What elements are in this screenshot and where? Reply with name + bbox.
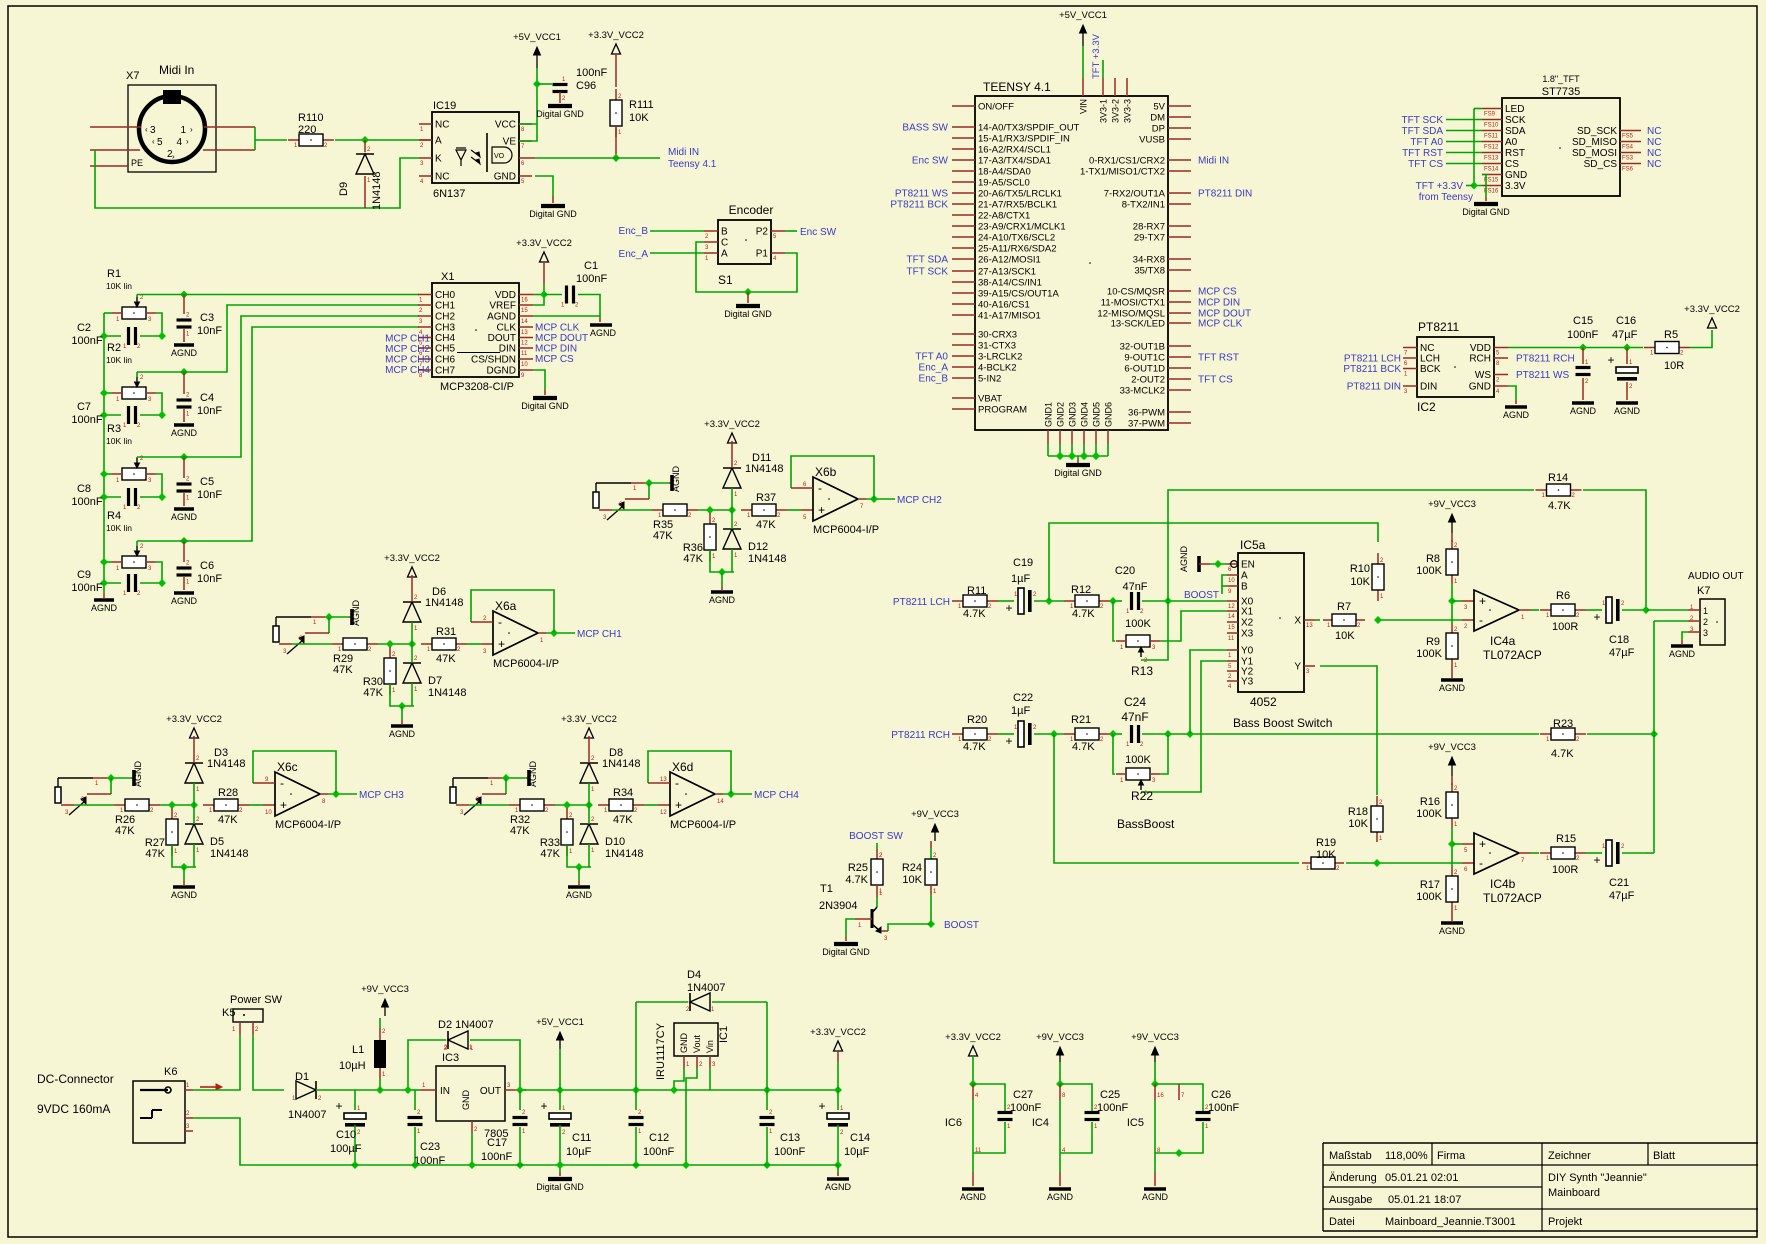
svg-text:47K: 47K [363, 687, 383, 699]
svg-text:NC: NC [1647, 159, 1661, 170]
svg-text:SD_MISO: SD_MISO [1572, 137, 1617, 148]
svg-text:47K: 47K [145, 848, 165, 860]
svg-text:Digital GND: Digital GND [1054, 468, 1102, 478]
svg-text:BOOST: BOOST [1184, 590, 1219, 601]
svg-text:100nF: 100nF [71, 582, 102, 594]
svg-text:BASS SW: BASS SW [902, 123, 948, 134]
svg-text:31-CTX3: 31-CTX3 [978, 341, 1016, 352]
svg-text:PT8211 BCK: PT8211 BCK [890, 200, 948, 211]
svg-text:Mainboard: Mainboard [1548, 1187, 1600, 1199]
svg-text:30-CRX3: 30-CRX3 [978, 330, 1017, 341]
svg-text:16: 16 [1157, 1093, 1164, 1099]
svg-text:14-A0/TX3/SPDIF_OUT: 14-A0/TX3/SPDIF_OUT [978, 123, 1080, 134]
svg-text:PE: PE [131, 158, 143, 168]
svg-text:R21: R21 [1071, 714, 1091, 726]
svg-text:1µF: 1µF [1011, 705, 1030, 717]
svg-text:RCH: RCH [1469, 354, 1491, 365]
svg-text:TFT +3.3V: TFT +3.3V [1091, 33, 1102, 79]
svg-text:R34: R34 [613, 787, 633, 799]
svg-text:AGND: AGND [487, 312, 516, 323]
svg-text:A: A [721, 249, 728, 260]
svg-text:4.7K: 4.7K [1072, 741, 1095, 753]
svg-text:Y: Y [1294, 662, 1301, 673]
svg-text:Digital GND: Digital GND [536, 1182, 584, 1192]
svg-text:VREF: VREF [489, 301, 516, 312]
svg-text:100nF: 100nF [643, 1146, 674, 1158]
svg-text:1N4007: 1N4007 [288, 1109, 327, 1121]
svg-text:AGND: AGND [709, 595, 736, 605]
svg-text:10K: 10K [902, 874, 922, 886]
svg-text:Enc SW: Enc SW [800, 227, 837, 238]
svg-text:+9V_VCC3: +9V_VCC3 [361, 984, 409, 995]
svg-text:4.7K: 4.7K [845, 874, 868, 886]
svg-text:100nF: 100nF [481, 1151, 512, 1163]
svg-text:C25: C25 [1100, 1089, 1120, 1101]
svg-text:Ausgabe: Ausgabe [1329, 1194, 1372, 1206]
svg-text:D1: D1 [295, 1071, 309, 1083]
svg-text:Digital GND: Digital GND [536, 109, 584, 119]
svg-text:C19: C19 [1013, 557, 1033, 569]
svg-text:10nF: 10nF [197, 325, 222, 337]
svg-text:47µF: 47µF [1612, 329, 1638, 341]
svg-text:100nF: 100nF [1010, 1102, 1041, 1114]
svg-text:15-A1/RX3/SPDIF_IN: 15-A1/RX3/SPDIF_IN [978, 134, 1070, 145]
svg-text:Enc_A: Enc_A [919, 363, 949, 374]
svg-text:+3.3V_VCC2: +3.3V_VCC2 [166, 714, 222, 725]
svg-text:13: 13 [521, 330, 528, 336]
svg-text:9-OUT1C: 9-OUT1C [1124, 353, 1165, 364]
svg-text:AGND: AGND [566, 890, 593, 900]
svg-text:14: 14 [521, 319, 528, 325]
svg-text:C2: C2 [77, 322, 91, 334]
svg-text:AGND: AGND [1439, 926, 1466, 936]
svg-text:ON/OFF: ON/OFF [978, 102, 1014, 113]
svg-text:FS11: FS11 [1484, 134, 1499, 140]
svg-text:Änderung: Änderung [1329, 1172, 1377, 1184]
svg-text:Bass Boost Switch: Bass Boost Switch [1233, 716, 1332, 730]
svg-text:R14: R14 [1548, 472, 1568, 484]
svg-text:6N137: 6N137 [433, 188, 465, 200]
svg-text:AGND: AGND [1439, 683, 1466, 693]
svg-text:Enc_A: Enc_A [619, 249, 649, 260]
svg-text:33-MCLK2: 33-MCLK2 [1120, 386, 1165, 397]
svg-text:Datei: Datei [1329, 1216, 1355, 1228]
svg-text:10µF: 10µF [566, 1146, 592, 1158]
svg-text:WS: WS [1475, 370, 1491, 381]
svg-text:100R: 100R [1552, 864, 1578, 876]
svg-text:20-A6/TX5/LRCLK1: 20-A6/TX5/LRCLK1 [978, 189, 1062, 200]
svg-text:+: + [1593, 853, 1600, 867]
svg-text:X2: X2 [1241, 618, 1254, 629]
svg-text:+: + [1479, 837, 1486, 851]
svg-text:GND: GND [461, 1090, 471, 1111]
svg-text:CH6: CH6 [435, 355, 455, 366]
svg-text:6-OUT1D: 6-OUT1D [1124, 364, 1165, 375]
svg-text:TFT SCK: TFT SCK [907, 267, 949, 278]
svg-text:13: 13 [660, 777, 667, 783]
svg-text:100K: 100K [1416, 565, 1442, 577]
svg-text:5V: 5V [1153, 102, 1165, 113]
svg-text:5: 5 [157, 137, 163, 148]
svg-text:1N4148: 1N4148 [425, 597, 464, 609]
svg-text:4: 4 [176, 137, 182, 148]
svg-text:100nF: 100nF [1567, 329, 1598, 341]
svg-text:25-A11/RX6/SDA2: 25-A11/RX6/SDA2 [978, 244, 1057, 255]
svg-text:C6: C6 [200, 560, 214, 572]
svg-text:VIN: VIN [1079, 99, 1089, 114]
svg-text:R20: R20 [967, 714, 987, 726]
svg-text:AGND: AGND [171, 890, 198, 900]
svg-text:C4: C4 [200, 392, 214, 404]
svg-text:VDD: VDD [495, 290, 516, 301]
svg-text:AGND: AGND [528, 760, 538, 787]
svg-text:Y0: Y0 [1241, 646, 1254, 657]
svg-text:Y3: Y3 [1241, 677, 1254, 688]
svg-text:1N4148: 1N4148 [210, 848, 249, 860]
svg-text:+3.3V_VCC2: +3.3V_VCC2 [1684, 304, 1740, 315]
svg-text:100nF: 100nF [774, 1146, 805, 1158]
svg-text:15: 15 [521, 308, 528, 314]
svg-text:Digital GND: Digital GND [724, 309, 772, 319]
svg-text:MCP CS: MCP CS [535, 354, 574, 365]
svg-text:A0: A0 [1505, 137, 1518, 148]
svg-text:C18: C18 [1609, 634, 1629, 646]
svg-text:DOUT: DOUT [488, 333, 516, 344]
svg-text:MCP CS: MCP CS [1198, 287, 1237, 298]
svg-text:PT8211 DIN: PT8211 DIN [1198, 189, 1252, 200]
svg-text:R13: R13 [1131, 664, 1153, 678]
svg-text:R22: R22 [1131, 789, 1153, 803]
svg-text:Enc_B: Enc_B [619, 226, 649, 237]
svg-text:+: + [675, 798, 682, 812]
svg-text:12: 12 [660, 810, 667, 816]
svg-text:28-RX7: 28-RX7 [1133, 222, 1165, 233]
svg-text:TFT RST: TFT RST [1402, 148, 1443, 159]
svg-text:B: B [1241, 582, 1248, 593]
svg-text:32-OUT1B: 32-OUT1B [1120, 342, 1165, 353]
svg-text:PT8211 LCH: PT8211 LCH [1344, 354, 1401, 365]
svg-text:100nF: 100nF [576, 273, 607, 285]
svg-text:SCK: SCK [1505, 115, 1526, 126]
svg-text:GND: GND [1505, 170, 1527, 181]
svg-text:C27: C27 [1013, 1089, 1033, 1101]
svg-text:C1: C1 [584, 260, 598, 272]
svg-text:C12: C12 [649, 1132, 669, 1144]
svg-text:MCP3208-CI/P: MCP3208-CI/P [440, 381, 514, 393]
svg-text:GND3: GND3 [1068, 402, 1078, 427]
svg-text:X6a: X6a [495, 599, 517, 613]
svg-text:CH5: CH5 [435, 344, 455, 355]
svg-text:MCP CH3: MCP CH3 [359, 790, 404, 801]
svg-text:16: 16 [521, 298, 528, 304]
svg-text:CS/SHDN: CS/SHDN [471, 355, 516, 366]
svg-text:BCK: BCK [1420, 364, 1441, 375]
svg-text:DP: DP [1152, 124, 1165, 135]
svg-text:7-RX2/OUT1A: 7-RX2/OUT1A [1104, 189, 1166, 200]
svg-text:+3.3V_VCC2: +3.3V_VCC2 [810, 1027, 866, 1038]
svg-text:AGND: AGND [1669, 649, 1696, 659]
svg-text:100nF: 100nF [71, 414, 102, 426]
svg-text:MCP CH2: MCP CH2 [385, 344, 430, 355]
svg-text:100K: 100K [1416, 808, 1442, 820]
svg-text:FS13: FS13 [1484, 156, 1499, 162]
svg-text:PT8211 RCH: PT8211 RCH [1516, 354, 1575, 365]
svg-text:10nF: 10nF [197, 573, 222, 585]
svg-text:FS14: FS14 [1484, 167, 1499, 173]
svg-text:1.8"_TFT: 1.8"_TFT [1542, 74, 1580, 84]
svg-text:100K: 100K [1125, 618, 1151, 630]
svg-text:DC-Connector: DC-Connector [37, 1072, 114, 1086]
svg-text:B: B [721, 227, 728, 238]
svg-text:10R: 10R [1664, 360, 1684, 372]
svg-text:R23: R23 [1553, 718, 1573, 730]
svg-text:5-IN2: 5-IN2 [978, 374, 1001, 385]
svg-text:47K: 47K [653, 530, 673, 542]
svg-text:D4: D4 [687, 969, 701, 981]
svg-text:FS6: FS6 [1622, 167, 1634, 173]
svg-text:Encoder: Encoder [729, 203, 774, 217]
svg-text:100nF: 100nF [1097, 1102, 1128, 1114]
svg-text:›: › [190, 125, 193, 134]
svg-text:R28: R28 [218, 787, 238, 799]
svg-text:DIN: DIN [1420, 382, 1437, 393]
svg-text:10µH: 10µH [339, 1060, 366, 1072]
svg-text:D7: D7 [428, 675, 442, 687]
svg-text:+9V_VCC3: +9V_VCC3 [1036, 1032, 1084, 1043]
svg-text:AGND: AGND [1614, 406, 1641, 416]
svg-text:11: 11 [521, 351, 528, 357]
svg-text:1N4148: 1N4148 [207, 758, 246, 770]
svg-text:TL072ACP: TL072ACP [1483, 891, 1542, 905]
svg-text:IC4a: IC4a [1490, 634, 1516, 648]
svg-text:X6c: X6c [277, 760, 298, 774]
svg-text:14: 14 [1228, 614, 1235, 620]
svg-text:24-A10/TX6/SCL2: 24-A10/TX6/SCL2 [978, 233, 1055, 244]
svg-text:10: 10 [265, 810, 272, 816]
svg-text:+5V_VCC1: +5V_VCC1 [513, 32, 561, 43]
svg-text:4.7K: 4.7K [1548, 500, 1571, 512]
svg-text:C16: C16 [1616, 315, 1636, 327]
svg-text:16-A2/RX4/SCL1: 16-A2/RX4/SCL1 [978, 145, 1051, 156]
svg-text:C11: C11 [572, 1132, 591, 1144]
svg-text:CH2: CH2 [435, 312, 455, 323]
svg-text:VDD: VDD [1470, 343, 1491, 354]
svg-text:10K: 10K [1348, 818, 1368, 830]
svg-text:MCP6004-I/P: MCP6004-I/P [493, 658, 559, 670]
svg-text:TL072ACP: TL072ACP [1483, 648, 1542, 662]
svg-text:4.7K: 4.7K [963, 608, 986, 620]
svg-text:11-MOSI/CTX1: 11-MOSI/CTX1 [1101, 298, 1165, 309]
svg-text:+9V_VCC3: +9V_VCC3 [1131, 1032, 1179, 1043]
svg-text:X7: X7 [126, 70, 139, 82]
svg-text:R7: R7 [1337, 601, 1351, 613]
svg-text:VO: VO [494, 153, 505, 160]
svg-text:100nF: 100nF [1208, 1102, 1239, 1114]
svg-text:TFT A0: TFT A0 [915, 352, 948, 363]
svg-text:C13: C13 [780, 1132, 800, 1144]
svg-text:VE: VE [503, 137, 517, 148]
svg-text:S1: S1 [718, 273, 733, 287]
svg-text:Projekt: Projekt [1548, 1216, 1582, 1228]
svg-text:PT8211: PT8211 [1418, 320, 1459, 334]
svg-text:R17: R17 [1420, 879, 1440, 891]
svg-text:X6d: X6d [672, 760, 693, 774]
svg-text:LED: LED [1505, 104, 1524, 115]
svg-text:R37: R37 [756, 492, 776, 504]
svg-text:AGND: AGND [1142, 1192, 1169, 1202]
svg-text:2: 2 [1703, 617, 1708, 627]
svg-text:NC: NC [1647, 137, 1661, 148]
svg-text:AGND: AGND [351, 599, 361, 626]
svg-text:R15: R15 [1556, 833, 1576, 845]
svg-text:AGND: AGND [171, 596, 198, 606]
svg-text:34-RX8: 34-RX8 [1133, 255, 1165, 266]
svg-text:-: - [1479, 856, 1483, 870]
svg-text:IC1: IC1 [718, 1026, 730, 1043]
svg-text:CH4: CH4 [435, 333, 455, 344]
svg-text:AGND: AGND [1179, 545, 1189, 572]
svg-text:AGND: AGND [1503, 410, 1530, 420]
svg-text:TFT CS: TFT CS [1198, 375, 1233, 386]
svg-text:›: › [186, 137, 189, 146]
svg-text:C8: C8 [77, 483, 91, 495]
svg-text:05.01.21 18:07: 05.01.21 18:07 [1388, 1194, 1461, 1206]
svg-text:DIY Synth "Jeannie": DIY Synth "Jeannie" [1548, 1172, 1647, 1184]
svg-text:R24: R24 [902, 862, 922, 874]
svg-text:K: K [435, 154, 442, 165]
svg-text:MCP6004-I/P: MCP6004-I/P [813, 524, 879, 536]
svg-text:10nF: 10nF [197, 489, 222, 501]
svg-text:A: A [435, 136, 442, 147]
svg-text:47K: 47K [613, 814, 633, 826]
svg-text:4-BCLK2: 4-BCLK2 [978, 363, 1017, 374]
svg-text:K7: K7 [1697, 585, 1710, 597]
svg-text:P1: P1 [756, 249, 769, 260]
svg-text:29-TX7: 29-TX7 [1134, 233, 1165, 244]
svg-text:TFT RST: TFT RST [1198, 353, 1239, 364]
svg-text:47K: 47K [510, 825, 530, 837]
svg-text:Vin: Vin [705, 1040, 715, 1053]
svg-text:-: - [280, 776, 284, 790]
svg-text:MCP CH3: MCP CH3 [385, 355, 430, 366]
svg-text:+: + [1005, 601, 1012, 615]
svg-text:K6: K6 [164, 1066, 177, 1078]
svg-text:+5V_VCC1: +5V_VCC1 [536, 1017, 584, 1028]
svg-text:GND2: GND2 [1056, 402, 1066, 427]
svg-text:Zeichner: Zeichner [1548, 1150, 1591, 1162]
svg-text:CH0: CH0 [435, 290, 455, 301]
svg-text:IC2: IC2 [1417, 400, 1436, 414]
svg-text:R25: R25 [848, 862, 868, 874]
svg-text:-: - [818, 481, 822, 495]
svg-text:12: 12 [1228, 604, 1235, 610]
svg-text:ST7735: ST7735 [1542, 86, 1581, 98]
svg-text:D9: D9 [338, 182, 350, 196]
svg-text:MCP DOUT: MCP DOUT [535, 333, 588, 344]
svg-text:10nF: 10nF [197, 405, 222, 417]
svg-text:Maßstab: Maßstab [1329, 1150, 1372, 1162]
svg-text:19-A5/SCL0: 19-A5/SCL0 [978, 178, 1030, 189]
svg-text:47µF: 47µF [1609, 890, 1635, 902]
svg-text:C96: C96 [576, 80, 596, 92]
svg-text:FS12: FS12 [1484, 145, 1499, 151]
svg-text:3: 3 [150, 125, 156, 136]
svg-text:GND: GND [494, 172, 516, 183]
svg-text:-: - [675, 776, 679, 790]
svg-text:AUDIO OUT: AUDIO OUT [1688, 571, 1744, 582]
svg-text:CS: CS [1505, 159, 1519, 170]
svg-text:47nF: 47nF [1122, 581, 1147, 593]
svg-text:AGND: AGND [171, 428, 198, 438]
svg-text:SD_SCK: SD_SCK [1577, 126, 1617, 137]
svg-text:TFT SCK: TFT SCK [1402, 115, 1444, 126]
svg-text:23-A9/CRX1/MCLK1: 23-A9/CRX1/MCLK1 [978, 222, 1066, 233]
svg-text:GND5: GND5 [1092, 402, 1102, 427]
svg-text:AGND: AGND [671, 465, 681, 492]
svg-text:PT8211 RCH: PT8211 RCH [891, 730, 950, 741]
svg-text:C3: C3 [200, 312, 214, 324]
svg-text:IC5a: IC5a [1240, 538, 1266, 552]
svg-text:13-SCK/LED: 13-SCK/LED [1111, 319, 1166, 330]
svg-text:8-TX2/IN1: 8-TX2/IN1 [1122, 200, 1165, 211]
svg-text:RST: RST [1505, 148, 1525, 159]
svg-text:C7: C7 [77, 401, 91, 413]
svg-text:R4: R4 [107, 510, 121, 522]
svg-text:PT8211 LCH: PT8211 LCH [893, 597, 950, 608]
svg-text:39-A15/CS/OUT1A: 39-A15/CS/OUT1A [978, 289, 1059, 300]
svg-text:CLK: CLK [497, 323, 517, 334]
svg-text:‹: ‹ [145, 125, 148, 134]
svg-text:1N4148: 1N4148 [748, 553, 787, 565]
svg-text:L1: L1 [352, 1044, 364, 1056]
svg-text:A: A [1241, 571, 1248, 582]
svg-text:CH7: CH7 [435, 366, 455, 377]
svg-text:FS4: FS4 [1622, 145, 1634, 151]
svg-text:R8: R8 [1426, 553, 1440, 565]
svg-text:IC5: IC5 [1127, 1117, 1144, 1129]
svg-text:D12: D12 [748, 541, 768, 553]
svg-text:9VDC 160mA: 9VDC 160mA [37, 1102, 110, 1116]
svg-text:1µF: 1µF [1011, 573, 1030, 585]
svg-text:AGND: AGND [825, 1182, 852, 1192]
svg-text:4.7K: 4.7K [1072, 608, 1095, 620]
svg-text:1N4148: 1N4148 [605, 848, 644, 860]
svg-text:C: C [721, 238, 728, 249]
svg-text:GND6: GND6 [1104, 402, 1114, 427]
svg-text:22-A8/CTX1: 22-A8/CTX1 [978, 211, 1030, 222]
svg-text:100nF: 100nF [71, 335, 102, 347]
svg-text:NC: NC [1647, 148, 1661, 159]
svg-text:10K: 10K [1350, 576, 1370, 588]
svg-text:PT8211 WS: PT8211 WS [895, 189, 948, 200]
svg-text:Blatt: Blatt [1653, 1150, 1675, 1162]
svg-text:X1: X1 [1241, 607, 1254, 618]
svg-text:47K: 47K [115, 825, 135, 837]
svg-text:AGND: AGND [171, 348, 198, 358]
svg-text:1: 1 [180, 125, 186, 136]
svg-text:100nF: 100nF [71, 496, 102, 508]
svg-text:MCP CH2: MCP CH2 [897, 495, 942, 506]
svg-text:TEENSY 4.1: TEENSY 4.1 [983, 80, 1051, 94]
svg-text:C20: C20 [1115, 565, 1135, 577]
svg-text:+: + [498, 637, 505, 651]
svg-text:X: X [1294, 616, 1301, 627]
svg-text:DM: DM [1150, 113, 1165, 124]
svg-text:BOOST SW: BOOST SW [849, 831, 903, 842]
svg-text:+: + [1479, 594, 1486, 608]
svg-text:+: + [1593, 610, 1600, 624]
svg-text:TFT +3.3V: TFT +3.3V [1416, 181, 1464, 192]
